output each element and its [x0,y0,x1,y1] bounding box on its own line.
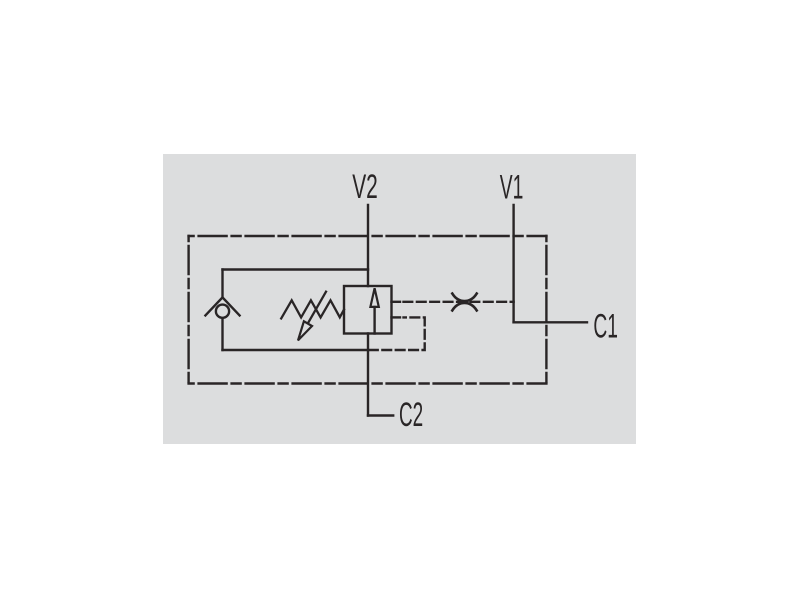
check valve ball [216,305,229,318]
restrictor orifice top arc [452,294,476,302]
svg-text:V2: V2 [352,168,378,206]
valve body boundary left edge (dash-dot) [187,236,189,384]
wire: check valve upper lead [221,270,223,298]
adjustment arrow head [298,321,312,340]
drain line solid stub (lower) [392,316,401,318]
valve body boundary bottom edge (dash-dot) [189,382,547,384]
adjustment arrow shaft [308,292,326,323]
check valve seat [205,297,239,315]
wire: top branch to check valve [223,268,369,270]
svg-text:V1: V1 [500,168,524,206]
wire: C1 horizontal line [514,321,587,323]
relief valve envelope (square) [344,286,392,334]
wire: V1 port vertical line [512,205,514,322]
wire: bottom branch from check valve to C2 node [223,349,369,351]
wire: valve outlet down to C2 [367,334,369,416]
pilot line dashed to V1 [404,301,514,303]
relief valve internal arrow head [370,288,378,307]
svg-text:C1: C1 [593,307,618,345]
relief valve internal flow line [373,307,375,334]
wire: C2 stub horizontal [368,414,393,416]
pilot line solid stub (upper) [392,301,401,303]
wire: V2 port vertical line [367,205,369,286]
drain dashed loop to C2 node [369,317,425,350]
valve body boundary top edge (dash-dot) [189,235,547,237]
adjustable spring (zigzag) [281,300,344,318]
restrictor orifice bottom arc [452,303,476,311]
svg-text:C2: C2 [399,396,423,434]
valve body boundary right edge (dash-dot) [545,236,547,384]
wire: check valve lower lead [221,318,223,350]
gray drawing panel [163,154,636,444]
